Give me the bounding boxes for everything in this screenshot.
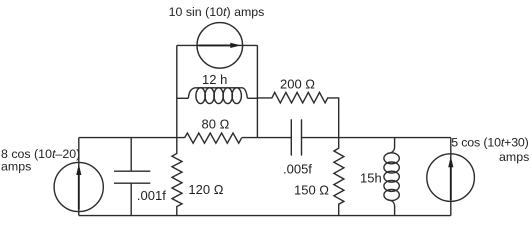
resistor R3 120ohm branch (172, 138, 182, 216)
svg-text:amps: amps (1, 159, 31, 173)
wire top bus left segment (79, 137, 185, 139)
wire top bus mid segment (242, 137, 292, 139)
current source I3 circle (427, 154, 475, 202)
svg-text:.005f: .005f (283, 162, 312, 177)
inductor L1 12h left lead (177, 97, 189, 99)
svg-text:120 Ω: 120 Ω (188, 182, 223, 197)
inductor L1 right lead (247, 97, 257, 99)
capacitor C1 top plate (114, 170, 150, 172)
inductor L2 15h top lead (387, 138, 394, 154)
svg-text:amps: amps (499, 150, 529, 164)
capacitor C2 .005f left plate (290, 119, 292, 155)
svg-text:.001f: .001f (137, 188, 166, 203)
wire top rung (177, 44, 258, 46)
capacitor C1 bottom plate (114, 182, 150, 184)
inductor L2 bottom lead (387, 200, 394, 216)
resistor R2 200ohm (257, 92, 338, 137)
capacitor C1 .001f top lead (130, 138, 132, 172)
resistor R4 150ohm branch (334, 138, 344, 216)
capacitor C1 bottom lead (130, 183, 132, 215)
svg-text:10 sin (10t) amps: 10 sin (10t) amps (169, 5, 265, 19)
current source I1 arrow (78, 168, 80, 210)
current source I2 (10 sin) circle (197, 23, 243, 69)
svg-text:80 Ω: 80 Ω (202, 117, 230, 132)
capacitor C2 right plate (301, 119, 303, 155)
inductor L1 loops (196, 88, 241, 104)
resistor R1 80ohm (185, 133, 242, 143)
wire right riser x=257.4 (256, 45, 258, 137)
current source I3 arrow (450, 161, 452, 201)
current source I3 (5 cos) branch wire (450, 138, 452, 216)
svg-text:15h: 15h (360, 171, 382, 186)
wire bottom bus (79, 215, 451, 217)
current source I1 (8 cos) branch wire (78, 138, 80, 216)
svg-text:150 Ω: 150 Ω (294, 183, 329, 198)
current source I1 circle (54, 162, 103, 211)
svg-text:5 cos (10t+30): 5 cos (10t+30) (451, 135, 528, 149)
svg-text:200 Ω: 200 Ω (280, 77, 315, 92)
inductor L1 top curve (188, 88, 247, 99)
svg-text:12 h: 12 h (202, 72, 227, 87)
wire top bus right segment (302, 137, 451, 139)
wire left riser x=176.8 (176, 45, 178, 137)
current source I2 arrow (199, 44, 232, 46)
inductor L2 loops (384, 153, 399, 201)
